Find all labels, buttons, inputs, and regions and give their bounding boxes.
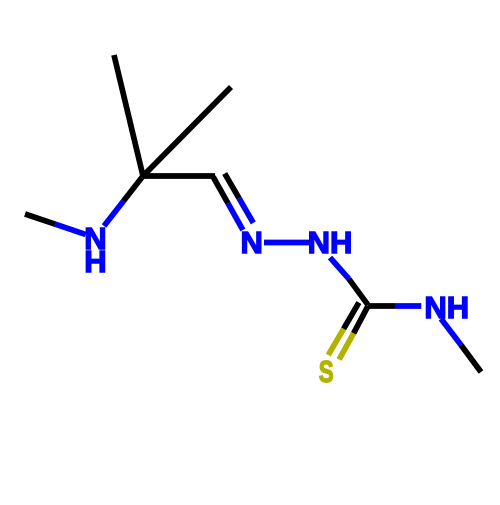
wire Ca-Ci [143, 173, 215, 179]
wire CH3a-N1 blue half [55, 224, 85, 234]
wire N2-N3 [264, 240, 312, 246]
wire Ci=N2 inner black [213, 177, 228, 204]
wire Ci=N2 outer black [225, 174, 239, 199]
svg-text:NH: NH [424, 290, 469, 325]
wire N5-CH3b blue half [441, 319, 461, 345]
wire Ca-T1 arm [114, 55, 143, 176]
wire Ci=N2 outer blue [239, 198, 253, 223]
wire Ca-T2 arm [143, 87, 231, 176]
wire N3-C4 blue half [330, 258, 349, 279]
wire C4=S inner olive [328, 329, 343, 355]
wire N1-Ca black half [124, 176, 144, 201]
wire Ci=N2 inner blue [228, 203, 243, 230]
wire C4=S inner black [344, 303, 359, 329]
wire C4-N5 blue half [395, 303, 421, 309]
wire CH3a-N1 black half [25, 214, 55, 224]
wire N1-Ca blue half [104, 201, 124, 226]
wire C4-N5 black half [368, 303, 395, 309]
wire N5-CH3b black half [461, 345, 481, 372]
svg-text:N: N [241, 225, 263, 260]
wire C4=S outer black [354, 306, 368, 333]
svg-text:NH: NH [308, 225, 353, 260]
wire C4=S outer olive [339, 333, 354, 359]
svg-text:H: H [84, 244, 106, 279]
wire N3-C4 black half [349, 279, 368, 305]
svg-text:S: S [319, 354, 334, 388]
